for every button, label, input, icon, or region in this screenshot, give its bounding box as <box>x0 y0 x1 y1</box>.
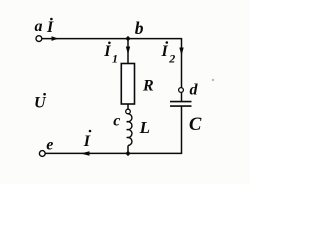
current arrow I2 (down) <box>179 48 183 56</box>
wire top a-b-corner <box>42 38 182 40</box>
svg-text:I: I <box>103 43 111 60</box>
capacitor C plates <box>170 101 192 103</box>
svg-text:e: e <box>46 137 53 154</box>
wire resistor to c <box>127 104 129 109</box>
current arrow I bottom (left) <box>81 151 90 156</box>
svg-text:d: d <box>190 82 199 99</box>
wire coil bottom to junction <box>127 146 129 154</box>
svg-text:1: 1 <box>112 51 118 65</box>
wire d to capacitor top plate <box>181 92 183 101</box>
svg-text:U: U <box>34 95 47 112</box>
svg-text:C: C <box>189 115 202 135</box>
inductor L coil <box>128 114 132 146</box>
node d circle <box>179 88 184 93</box>
terminal e <box>39 151 45 157</box>
svg-text:I: I <box>83 133 91 150</box>
svg-text:a: a <box>35 18 43 35</box>
resistor R box <box>121 64 134 105</box>
bottom junction dot <box>125 151 130 156</box>
node c circle <box>126 109 131 114</box>
svg-text:L: L <box>139 118 150 137</box>
svg-text:R: R <box>142 77 154 94</box>
svg-text:2: 2 <box>168 52 175 66</box>
inductor L coil knots <box>126 121 128 123</box>
current arrow I1 (down) <box>126 47 130 55</box>
svg-text:I: I <box>161 43 169 60</box>
terminal a <box>36 36 42 42</box>
wire node b down to resistor <box>127 39 129 64</box>
svg-text:b: b <box>135 18 144 38</box>
svg-text:I: I <box>46 19 54 36</box>
svg-text:c: c <box>113 113 120 130</box>
wire right branch upper (corner to d) <box>181 39 183 88</box>
current arrow I top (right) <box>52 36 59 41</box>
paper speck <box>212 79 214 81</box>
node b junction dot <box>125 36 130 41</box>
wire bottom e-corner <box>45 152 182 154</box>
wire capacitor bottom plate to bottom <box>181 106 183 153</box>
